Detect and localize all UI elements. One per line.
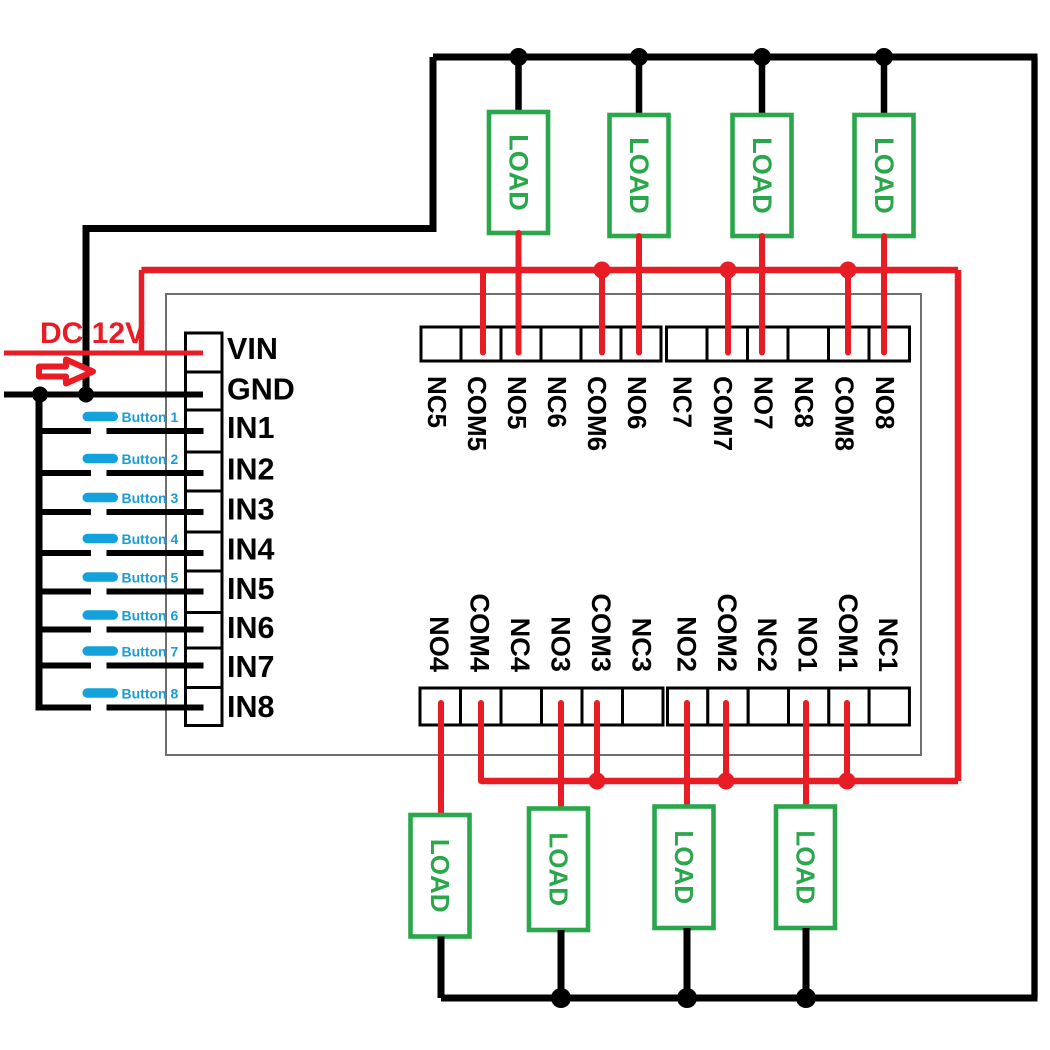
wire button 7 right segment to IN7 (107, 663, 204, 669)
arrow power-in symbol (39, 360, 93, 384)
button 7 lever (83, 646, 119, 656)
wire load L3 return to bottom bus (558, 930, 565, 998)
svg-text:NC4: NC4 (505, 618, 536, 672)
wire black bottom bus (441, 995, 1038, 1002)
wire NO1 pin to load (803, 703, 809, 812)
wire +12V riser to red top bus (139, 270, 145, 353)
wire load 8 to top bus (881, 57, 888, 120)
svg-text:NC1: NC1 (873, 618, 904, 672)
svg-text:NC3: NC3 (627, 618, 658, 672)
junction GND / load return riser (78, 387, 94, 403)
junction red top bus (840, 262, 857, 279)
wire +12V tip into VIN cell (184, 351, 203, 356)
wire load L6 to NO6 pin (636, 236, 642, 353)
wire button 8 left segment (39, 705, 91, 711)
terminal strip NC7..NO8 (right group) (667, 327, 910, 361)
junction black top bus / load 5 (510, 48, 528, 66)
junction red bottom bus (589, 773, 606, 790)
wire COM7 stub (725, 270, 731, 353)
wire button 1 left segment (39, 428, 91, 434)
svg-text:IN2: IN2 (227, 453, 274, 487)
svg-text:COM6: COM6 (582, 376, 612, 451)
svg-text:Button 2: Button 2 (122, 451, 179, 467)
svg-text:NO5: NO5 (502, 376, 532, 429)
junction red bottom bus (718, 773, 735, 790)
junction red bottom bus (839, 773, 856, 790)
svg-text:COM5: COM5 (462, 376, 492, 451)
button 4 lever (83, 534, 119, 544)
wire red right-side riser (955, 270, 962, 781)
load L2 box (655, 807, 714, 929)
wire red bottom bus (COM supply) (481, 778, 958, 785)
wire NO3 pin to load (558, 703, 564, 814)
junction black top bus / load 8 (875, 48, 893, 66)
svg-text:LOAD: LOAD (624, 137, 654, 214)
svg-text:NO3: NO3 (546, 616, 577, 672)
wire button 3 left segment (39, 509, 91, 515)
wire black top bus (433, 54, 1038, 61)
wire button 5 right segment to IN5 (107, 589, 204, 595)
wire button 7 left segment (39, 663, 91, 669)
wire button 3 right segment to IN3 (107, 509, 204, 515)
svg-text:NO7: NO7 (749, 376, 779, 429)
wire load L7 to NO7 pin (759, 236, 765, 353)
load L8 box (855, 115, 914, 236)
junction GND / button bus (32, 387, 48, 403)
svg-text:Button 7: Button 7 (122, 643, 179, 659)
wire button 6 left segment (39, 627, 91, 633)
load L3 box (529, 809, 588, 931)
svg-text:Button 8: Button 8 (122, 685, 179, 701)
junction red top bus (720, 262, 737, 279)
wire load L2 return to bottom bus (684, 928, 691, 998)
wire load 6 to top bus (636, 57, 643, 120)
junction red top bus (594, 262, 611, 279)
svg-text:IN4: IN4 (227, 533, 275, 567)
svg-text:NO8: NO8 (870, 376, 900, 429)
wire load L1 return to bottom bus (803, 928, 810, 998)
svg-text:NC8: NC8 (789, 376, 819, 428)
load L6 box (610, 115, 669, 236)
button 8 lever (83, 688, 119, 698)
svg-text:Button 4: Button 4 (122, 531, 179, 547)
svg-text:LOAD: LOAD (544, 832, 574, 906)
svg-text:Button 1: Button 1 (122, 409, 179, 425)
svg-text:NO6: NO6 (622, 376, 652, 429)
load L4 box (411, 815, 470, 937)
svg-text:VIN: VIN (227, 332, 278, 366)
button 6 lever (83, 610, 119, 620)
wire load 5 to top bus (515, 57, 522, 117)
svg-text:LOAD: LOAD (747, 137, 777, 214)
svg-text:COM3: COM3 (586, 593, 617, 672)
svg-text:LOAD: LOAD (791, 830, 821, 904)
load L5 box (489, 112, 548, 233)
svg-text:NC7: NC7 (668, 376, 698, 428)
wire COM3 stub (594, 703, 600, 781)
svg-text:DC 12V: DC 12V (40, 317, 145, 350)
wire button 5 left segment (39, 589, 91, 595)
button 1 lever (83, 412, 119, 422)
svg-text:IN1: IN1 (227, 411, 275, 445)
wire COM6 stub (599, 270, 605, 353)
svg-text:NC6: NC6 (542, 376, 572, 428)
svg-text:IN3: IN3 (227, 493, 274, 527)
wire NO2 pin to load (684, 703, 690, 812)
junction black bottom bus (677, 988, 697, 1008)
load L1 box (776, 807, 835, 929)
load L7 box (733, 115, 792, 236)
svg-text:NC5: NC5 (422, 376, 452, 428)
svg-text:LOAD: LOAD (869, 137, 899, 214)
svg-text:IN8: IN8 (227, 690, 275, 724)
svg-text:COM1: COM1 (833, 593, 864, 672)
junction black bottom bus (551, 988, 571, 1008)
svg-text:GND: GND (227, 373, 295, 407)
svg-text:IN7: IN7 (227, 650, 274, 684)
svg-text:IN5: IN5 (227, 572, 275, 606)
svg-text:COM7: COM7 (708, 376, 738, 451)
svg-text:Button 3: Button 3 (122, 490, 179, 506)
wire load L4 return to bottom bus (438, 937, 445, 999)
wire GND riser up-left loop to top bus (86, 57, 433, 395)
wire button common bus (left vertical) (36, 391, 43, 711)
wire COM2 stub (723, 703, 729, 781)
svg-text:LOAD: LOAD (669, 830, 699, 904)
wire load 7 to top bus (759, 57, 766, 120)
wire +12V feed to VIN pin (4, 351, 203, 356)
button 5 lever (83, 572, 119, 582)
wire COM4 stub (478, 703, 484, 781)
svg-text:NC2: NC2 (752, 618, 783, 672)
wire button 8 right segment to IN8 (107, 705, 204, 711)
wire black right-side drop (1031, 57, 1037, 998)
wire COM5 stub (480, 270, 486, 353)
svg-text:LOAD: LOAD (425, 839, 455, 913)
relay module board outline (166, 294, 921, 755)
wire button 2 left segment (39, 470, 91, 476)
wire COM8 stub (845, 270, 851, 353)
wire COM1 stub (844, 703, 850, 781)
terminal strip NO4..NC3 (left group) (420, 688, 663, 725)
terminal strip NO2..NC1 (right group) (668, 688, 910, 725)
wire button 6 right segment to IN6 (107, 627, 204, 633)
wire button 2 right segment to IN2 (107, 470, 204, 476)
svg-text:COM2: COM2 (712, 593, 743, 672)
button 3 lever (83, 493, 119, 503)
wire GND horizontal to module GND pin (4, 392, 203, 398)
junction black top bus / load 6 (630, 48, 648, 66)
wire red top bus (COM supply) (142, 267, 959, 274)
terminal strip NC5..NO6 (left group) (421, 327, 661, 361)
svg-text:LOAD: LOAD (504, 134, 534, 211)
button 2 lever (83, 454, 119, 464)
left terminal block VIN..IN8 (186, 333, 223, 726)
wire button 4 right segment to IN4 (107, 550, 204, 556)
svg-text:COM4: COM4 (465, 593, 496, 672)
wire tips into top terminals (483, 325, 884, 353)
junction black top bus / load 7 (753, 48, 771, 66)
wire NO4 pin to load (438, 703, 444, 820)
wire button 4 left segment (39, 550, 91, 556)
svg-text:NO4: NO4 (424, 616, 455, 672)
svg-text:COM8: COM8 (830, 376, 860, 451)
svg-text:IN6: IN6 (227, 611, 274, 645)
svg-text:Button 6: Button 6 (122, 607, 179, 623)
svg-text:NO1: NO1 (792, 616, 823, 672)
svg-text:NO2: NO2 (671, 616, 702, 672)
wire load L5 to NO5 pin (516, 233, 522, 353)
junction black bottom bus (796, 988, 816, 1008)
wire button 1 right segment to IN1 (107, 428, 204, 434)
svg-text:Button 5: Button 5 (122, 569, 179, 585)
wire load L8 to NO8 pin (881, 236, 887, 353)
